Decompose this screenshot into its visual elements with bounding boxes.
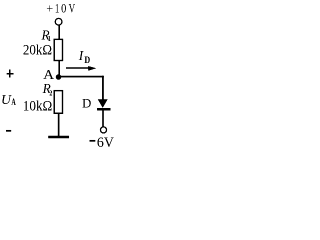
svg-text:A: A xyxy=(43,67,54,82)
svg-text:0: 0 xyxy=(61,2,66,16)
wire corner down to diode xyxy=(102,76,104,100)
wire diode to terminal xyxy=(102,110,104,126)
svg-text:20kΩ: 20kΩ xyxy=(23,43,52,59)
svg-text:6V: 6V xyxy=(97,135,114,149)
svg-text:D: D xyxy=(84,55,90,65)
svg-text:U: U xyxy=(1,92,12,107)
label +10V xyxy=(46,2,75,16)
ground xyxy=(48,136,69,139)
svg-text:1: 1 xyxy=(55,2,60,16)
svg-text:1: 1 xyxy=(48,34,51,43)
label D xyxy=(82,96,91,110)
svg-text:I: I xyxy=(78,48,84,63)
svg-text:A: A xyxy=(11,97,16,107)
wire node A to right corner xyxy=(58,76,104,78)
wire R2 to ground xyxy=(58,113,60,136)
diode D xyxy=(97,99,110,109)
svg-text:10kΩ: 10kΩ xyxy=(23,98,53,114)
label ID xyxy=(78,48,91,65)
wire terminal to R1 xyxy=(58,25,60,39)
terminal -6V xyxy=(100,127,106,133)
label plus UA xyxy=(7,70,14,78)
label R2 xyxy=(42,81,53,98)
terminal +10V xyxy=(55,18,62,25)
svg-text:2: 2 xyxy=(49,89,52,98)
label -6V xyxy=(90,135,115,151)
label R1 xyxy=(41,28,52,43)
node A xyxy=(56,74,62,80)
label 10kOhm xyxy=(23,98,53,114)
label minus UA xyxy=(6,130,11,132)
label 20kOhm xyxy=(23,43,52,59)
wire R1 to node A xyxy=(58,60,60,77)
resistor R2 xyxy=(54,91,62,114)
label UA xyxy=(1,92,16,107)
svg-text:+: + xyxy=(46,2,53,16)
resistor R1 xyxy=(54,39,62,60)
svg-text:V: V xyxy=(69,2,76,16)
svg-text:D: D xyxy=(82,96,91,110)
label A xyxy=(43,67,54,82)
current arrow ID xyxy=(66,66,96,71)
